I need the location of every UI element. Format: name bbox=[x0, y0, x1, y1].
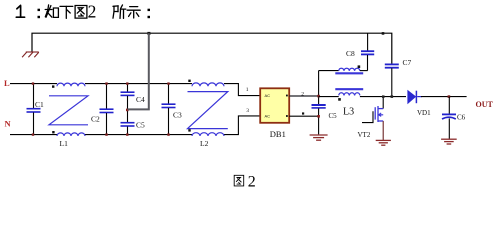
图 bbox=[75, 6, 87, 19]
core Z of L2 bbox=[188, 92, 228, 129]
svg-text:C1: C1 bbox=[35, 100, 44, 109]
capacitor C8 bbox=[346, 33, 374, 71]
phase dot L1 bottom bbox=[52, 131, 54, 133]
inductor L1 bottom winding bbox=[57, 133, 85, 136]
svg-text:C4: C4 bbox=[136, 95, 145, 104]
title text "1：如下图2 所示：" bbox=[16, 1, 150, 21]
bottom winding bbox=[339, 93, 360, 96]
svg-text:3: 3 bbox=[246, 108, 249, 114]
ground (VT2 source) bbox=[376, 140, 391, 145]
gate wire bbox=[362, 111, 373, 122]
capacitor C5 (bulk) bbox=[312, 105, 338, 134]
capacitor C3 bbox=[162, 82, 183, 135]
capacitor C7 bbox=[385, 58, 412, 97]
capacitor C5 (filter) bbox=[121, 109, 146, 136]
transformer L3 bbox=[319, 65, 368, 117]
primary top lead bbox=[319, 70, 339, 72]
wire L line mid bbox=[85, 83, 192, 85]
node dot DB1- bbox=[317, 115, 320, 118]
svg-text:2: 2 bbox=[248, 173, 256, 189]
wire earth branch (gray) bbox=[128, 33, 149, 109]
如 bbox=[45, 5, 58, 18]
svg-text:L2: L2 bbox=[200, 139, 209, 148]
wire L line left bbox=[10, 83, 57, 85]
wire DB1 pin2 to C5 node bbox=[289, 95, 318, 97]
wire VD1 to OUT bbox=[421, 96, 467, 98]
wire primary vertical / bulk C5 branch bbox=[318, 71, 320, 105]
source wire bbox=[382, 121, 384, 140]
svg-text:L3: L3 bbox=[343, 107, 354, 118]
node dot on rail bbox=[382, 32, 385, 35]
svg-text:C8: C8 bbox=[346, 49, 355, 58]
所 bbox=[113, 5, 126, 19]
ground (C6) bbox=[441, 139, 457, 144]
capacitor C2 bbox=[91, 82, 114, 135]
svg-text:DB1: DB1 bbox=[270, 129, 286, 139]
示 bbox=[127, 7, 140, 18]
phase dot L1 top bbox=[52, 85, 54, 87]
wire N line right jog to DB1 pin3 bbox=[224, 116, 260, 135]
phase dot top bbox=[358, 65, 361, 68]
transistor VT2 bbox=[358, 95, 385, 140]
svg-text:C7: C7 bbox=[403, 58, 412, 67]
capacitor C1 bbox=[27, 82, 45, 135]
node dot C6 top bbox=[448, 95, 451, 98]
svg-text:AC: AC bbox=[265, 114, 271, 119]
core Z of L1 bbox=[49, 96, 88, 125]
pin number 4 bbox=[302, 112, 304, 114]
wire secondary line bbox=[319, 96, 339, 98]
svg-text:2: 2 bbox=[88, 1, 97, 21]
svg-text:N: N bbox=[5, 119, 12, 129]
svg-text:C2: C2 bbox=[91, 115, 100, 124]
svg-text:C6: C6 bbox=[457, 114, 466, 122]
node dot rail-earth junction bbox=[147, 32, 150, 35]
inductor L2 top winding bbox=[192, 83, 224, 86]
下 bbox=[60, 6, 73, 18]
top earth rail wire bbox=[32, 33, 383, 52]
ground (bulk) bbox=[310, 135, 328, 140]
capacitor C4 bbox=[121, 82, 146, 109]
svg-text:C5: C5 bbox=[329, 112, 338, 120]
capacitor C6 bbox=[442, 97, 466, 139]
core bars bbox=[335, 72, 363, 74]
svg-text:AC: AC bbox=[265, 93, 271, 98]
svg-text:L1: L1 bbox=[60, 139, 69, 148]
diode VD1 bbox=[408, 91, 431, 117]
inductor L2 bottom winding bbox=[192, 133, 224, 136]
wire rail right end to C7 branch bbox=[383, 33, 392, 63]
wire L line right jog to DB1 pin1 bbox=[224, 84, 260, 96]
phase dot L2 top bbox=[188, 80, 190, 82]
phase dot L2 bottom bbox=[188, 129, 190, 131]
drain wire bbox=[382, 97, 384, 109]
svg-text:C5: C5 bbox=[136, 121, 145, 130]
wire DB1 pin4 to gnd node bbox=[289, 115, 318, 117]
caption 图 2 bbox=[234, 173, 256, 190]
chassis ground bbox=[22, 52, 39, 57]
svg-text:OUT: OUT bbox=[476, 100, 494, 109]
wire N line mid bbox=[85, 134, 192, 136]
svg-text:VT2: VT2 bbox=[358, 131, 371, 139]
wire N line left bbox=[10, 134, 57, 136]
node dot C7 bottom bbox=[391, 95, 394, 98]
svg-text:VD1: VD1 bbox=[417, 109, 431, 117]
svg-text:C3: C3 bbox=[173, 111, 182, 120]
bridge rectifier DB1 bbox=[260, 88, 289, 139]
top lead right bbox=[360, 70, 368, 72]
node dot DB1+ bbox=[317, 95, 320, 98]
svg-text:L: L bbox=[4, 78, 10, 88]
inductor L1 top winding bbox=[57, 83, 85, 86]
mosfet symbol bbox=[375, 106, 383, 122]
phase dot bottom bbox=[338, 98, 341, 101]
svg-text:1: 1 bbox=[246, 87, 249, 93]
top winding bbox=[339, 68, 360, 71]
